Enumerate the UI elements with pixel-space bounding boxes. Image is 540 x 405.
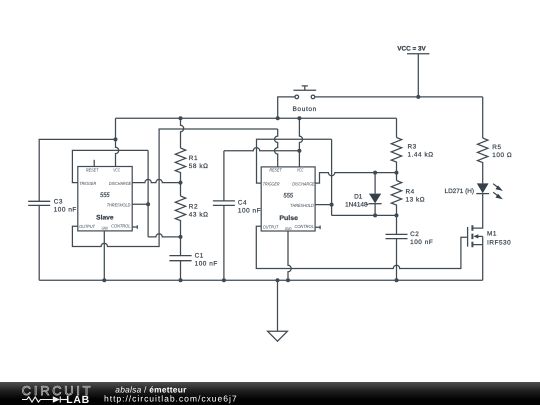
wire button left segment (278, 97, 295, 118)
svg-text:VCC: VCC (113, 167, 120, 172)
svg-text:C4: C4 (238, 199, 247, 206)
wire Pulse TRIGGER to wire y=139.3 (257, 139, 332, 183)
wire threshold-trigger column x=148.1 (147, 150, 149, 237)
wire Pulse RESET column with two left hops (275, 129, 278, 167)
footer bar (0, 382, 540, 405)
node junction R4 bottom / C2 top (395, 213, 399, 217)
wire Slave OUTPUT to x=159.1 column (72, 129, 277, 247)
CircuitLab logo wordmark (22, 383, 94, 405)
svg-text:TRIGGER: TRIGGER (263, 181, 281, 186)
node junction C1 on rail (179, 278, 183, 282)
svg-text:DISCHARGE: DISCHARGE (292, 181, 315, 186)
svg-text:100 nF: 100 nF (410, 239, 433, 246)
wire Slave GND column (103, 231, 105, 280)
node junction VCC on top rail (416, 95, 420, 99)
svg-text:C1: C1 (195, 252, 204, 259)
node junction C3 wire on Slave VCC column (114, 137, 118, 141)
wire ground rail y=280.3 (39, 279, 483, 281)
LED LD271 (H) (445, 183, 503, 199)
svg-text:GND: GND (285, 226, 292, 231)
wire Slave THRESHOLD stub (132, 203, 148, 205)
resistor R2 43 kOhm (175, 183, 208, 237)
svg-text:OUTPUT: OUTPUT (263, 225, 280, 230)
VCC supply symbol VCC = 3V (397, 45, 429, 97)
capacitor C3 100 nF (28, 198, 77, 213)
svg-text:Slave: Slave (96, 215, 114, 222)
wire Slave DISCHARGE wire y=182.6 with two hops (132, 179, 180, 182)
svg-text:1.44 kΩ: 1.44 kΩ (408, 151, 434, 158)
resistor R5 100 Ohm (478, 97, 513, 183)
wire Pulse THRESHOLD stub (315, 204, 332, 206)
svg-text:C3: C3 (54, 198, 63, 205)
node junction ground stem (276, 278, 280, 282)
node junction C4 on rail (222, 278, 226, 282)
svg-text:CONTROL: CONTROL (111, 224, 131, 229)
wire Slave TRIGGER to threshold column (72, 150, 148, 182)
transistor M1 IRF530 NMOS (468, 194, 512, 281)
svg-text:Pulse: Pulse (279, 215, 298, 222)
svg-text:DISCHARGE: DISCHARGE (109, 181, 132, 186)
svg-text:LD271 (H): LD271 (H) (445, 188, 474, 195)
svg-text:THRESHOLD: THRESHOLD (290, 203, 314, 208)
node junction C4 wire on Pulse VCC column (297, 149, 301, 153)
node junction button-left (276, 116, 280, 120)
svg-text:M1: M1 (487, 231, 497, 238)
node junction Pulse VCC (297, 116, 301, 120)
resistor R4 13 kOhm (391, 173, 425, 216)
pin CONTROL stub Slave (132, 225, 137, 229)
svg-text:http://circuitlab.com/cxue6j7: http://circuitlab.com/cxue6j7 (104, 393, 238, 403)
wire Pulse OUTPUT to M1 gate with hop over C2 column (256, 226, 467, 268)
svg-text:TRIGGER: TRIGGER (79, 181, 97, 186)
pushbutton Bouton (292, 86, 317, 113)
svg-text:100 nF: 100 nF (238, 207, 261, 214)
wire Slave VCC column with hop over trigger wire (116, 118, 119, 166)
svg-text:OUTPUT: OUTPUT (79, 224, 96, 229)
node junction threshold on column (330, 203, 334, 207)
node junction D1 top (373, 171, 377, 175)
svg-text:58 kΩ: 58 kΩ (189, 163, 209, 170)
IC U1 555 timer Slave (78, 167, 132, 231)
svg-text:R1: R1 (189, 155, 198, 162)
wire threshold column x=331.6 (331, 139, 333, 215)
svg-text:555: 555 (100, 192, 110, 199)
resistor R3 1.44 kOhm (391, 118, 433, 172)
capacitor C2 100 nF (386, 215, 434, 280)
svg-text:IRF530: IRF530 (487, 240, 511, 247)
diode D1 1N4148 (345, 173, 381, 216)
resistor R1 58 kOhm (175, 118, 208, 182)
svg-text:100 nF: 100 nF (195, 260, 218, 267)
svg-text:R5: R5 (492, 144, 501, 151)
svg-text:LAB: LAB (66, 394, 90, 405)
wire C3 top wire y=139.4 (39, 139, 115, 201)
pin CONTROL stub Pulse (315, 226, 320, 230)
pin RESET stub Slave (93, 160, 95, 167)
IC U2 555 timer Pulse (261, 167, 315, 231)
wire top rail y=96.9 (button right to R5 corner) (315, 96, 483, 98)
svg-text:100 nF: 100 nF (54, 206, 77, 213)
node junction threshold on column (146, 202, 150, 206)
svg-text:100 Ω: 100 Ω (492, 152, 512, 159)
node junction R1 bottom / R2 top (179, 181, 183, 185)
svg-text:R4: R4 (406, 188, 415, 195)
wire R2 bottom wire y=236.9 with hop (148, 234, 180, 237)
node junction Slave GND on rail (102, 278, 106, 282)
svg-text:555: 555 (283, 192, 293, 199)
svg-text:D1: D1 (354, 193, 363, 200)
svg-text:GND: GND (102, 226, 109, 231)
node junction R3 bottom / R4 top (395, 171, 399, 175)
svg-text:R2: R2 (189, 204, 198, 211)
svg-text:C2: C2 (410, 231, 419, 238)
svg-text:VCC = 3V: VCC = 3V (397, 45, 426, 52)
ground symbol (268, 280, 288, 341)
svg-text:1N4148: 1N4148 (345, 201, 368, 208)
svg-text:R3: R3 (408, 143, 417, 150)
wire C4 top wire y=150.8 with hop (224, 148, 300, 151)
wire Pulse GND column with right hop over gate wire (288, 231, 291, 280)
svg-text:RESET: RESET (86, 167, 99, 172)
wire bottom of threshold column y=215.4 (332, 214, 397, 216)
node junction R2 bottom / C1 top (179, 235, 183, 239)
capacitor C1 100 nF (169, 237, 217, 280)
wire C3 bottom to ground rail (38, 205, 40, 280)
svg-text:CONTROL: CONTROL (295, 224, 315, 229)
wire Pulse VCC column with right hop (299, 118, 302, 167)
svg-text:Bouton: Bouton (292, 106, 317, 113)
capacitor C4 100 nF (213, 151, 261, 280)
wire VCC rail y=118.3 (116, 117, 397, 119)
node junction D1 bottom (373, 213, 377, 217)
svg-text:13 kΩ: 13 kΩ (406, 196, 426, 203)
svg-text:43 kΩ: 43 kΩ (189, 212, 209, 219)
node junction R1 top (179, 116, 183, 120)
wire Pulse DISCHARGE riser and y=172.6 with down hop (315, 173, 396, 184)
node junction Pulse GND on rail (286, 278, 290, 282)
svg-text:RESET: RESET (269, 168, 282, 173)
node junction C2 on rail (395, 278, 399, 282)
svg-text:VCC: VCC (297, 168, 304, 173)
svg-text:THRESHOLD: THRESHOLD (107, 202, 131, 207)
